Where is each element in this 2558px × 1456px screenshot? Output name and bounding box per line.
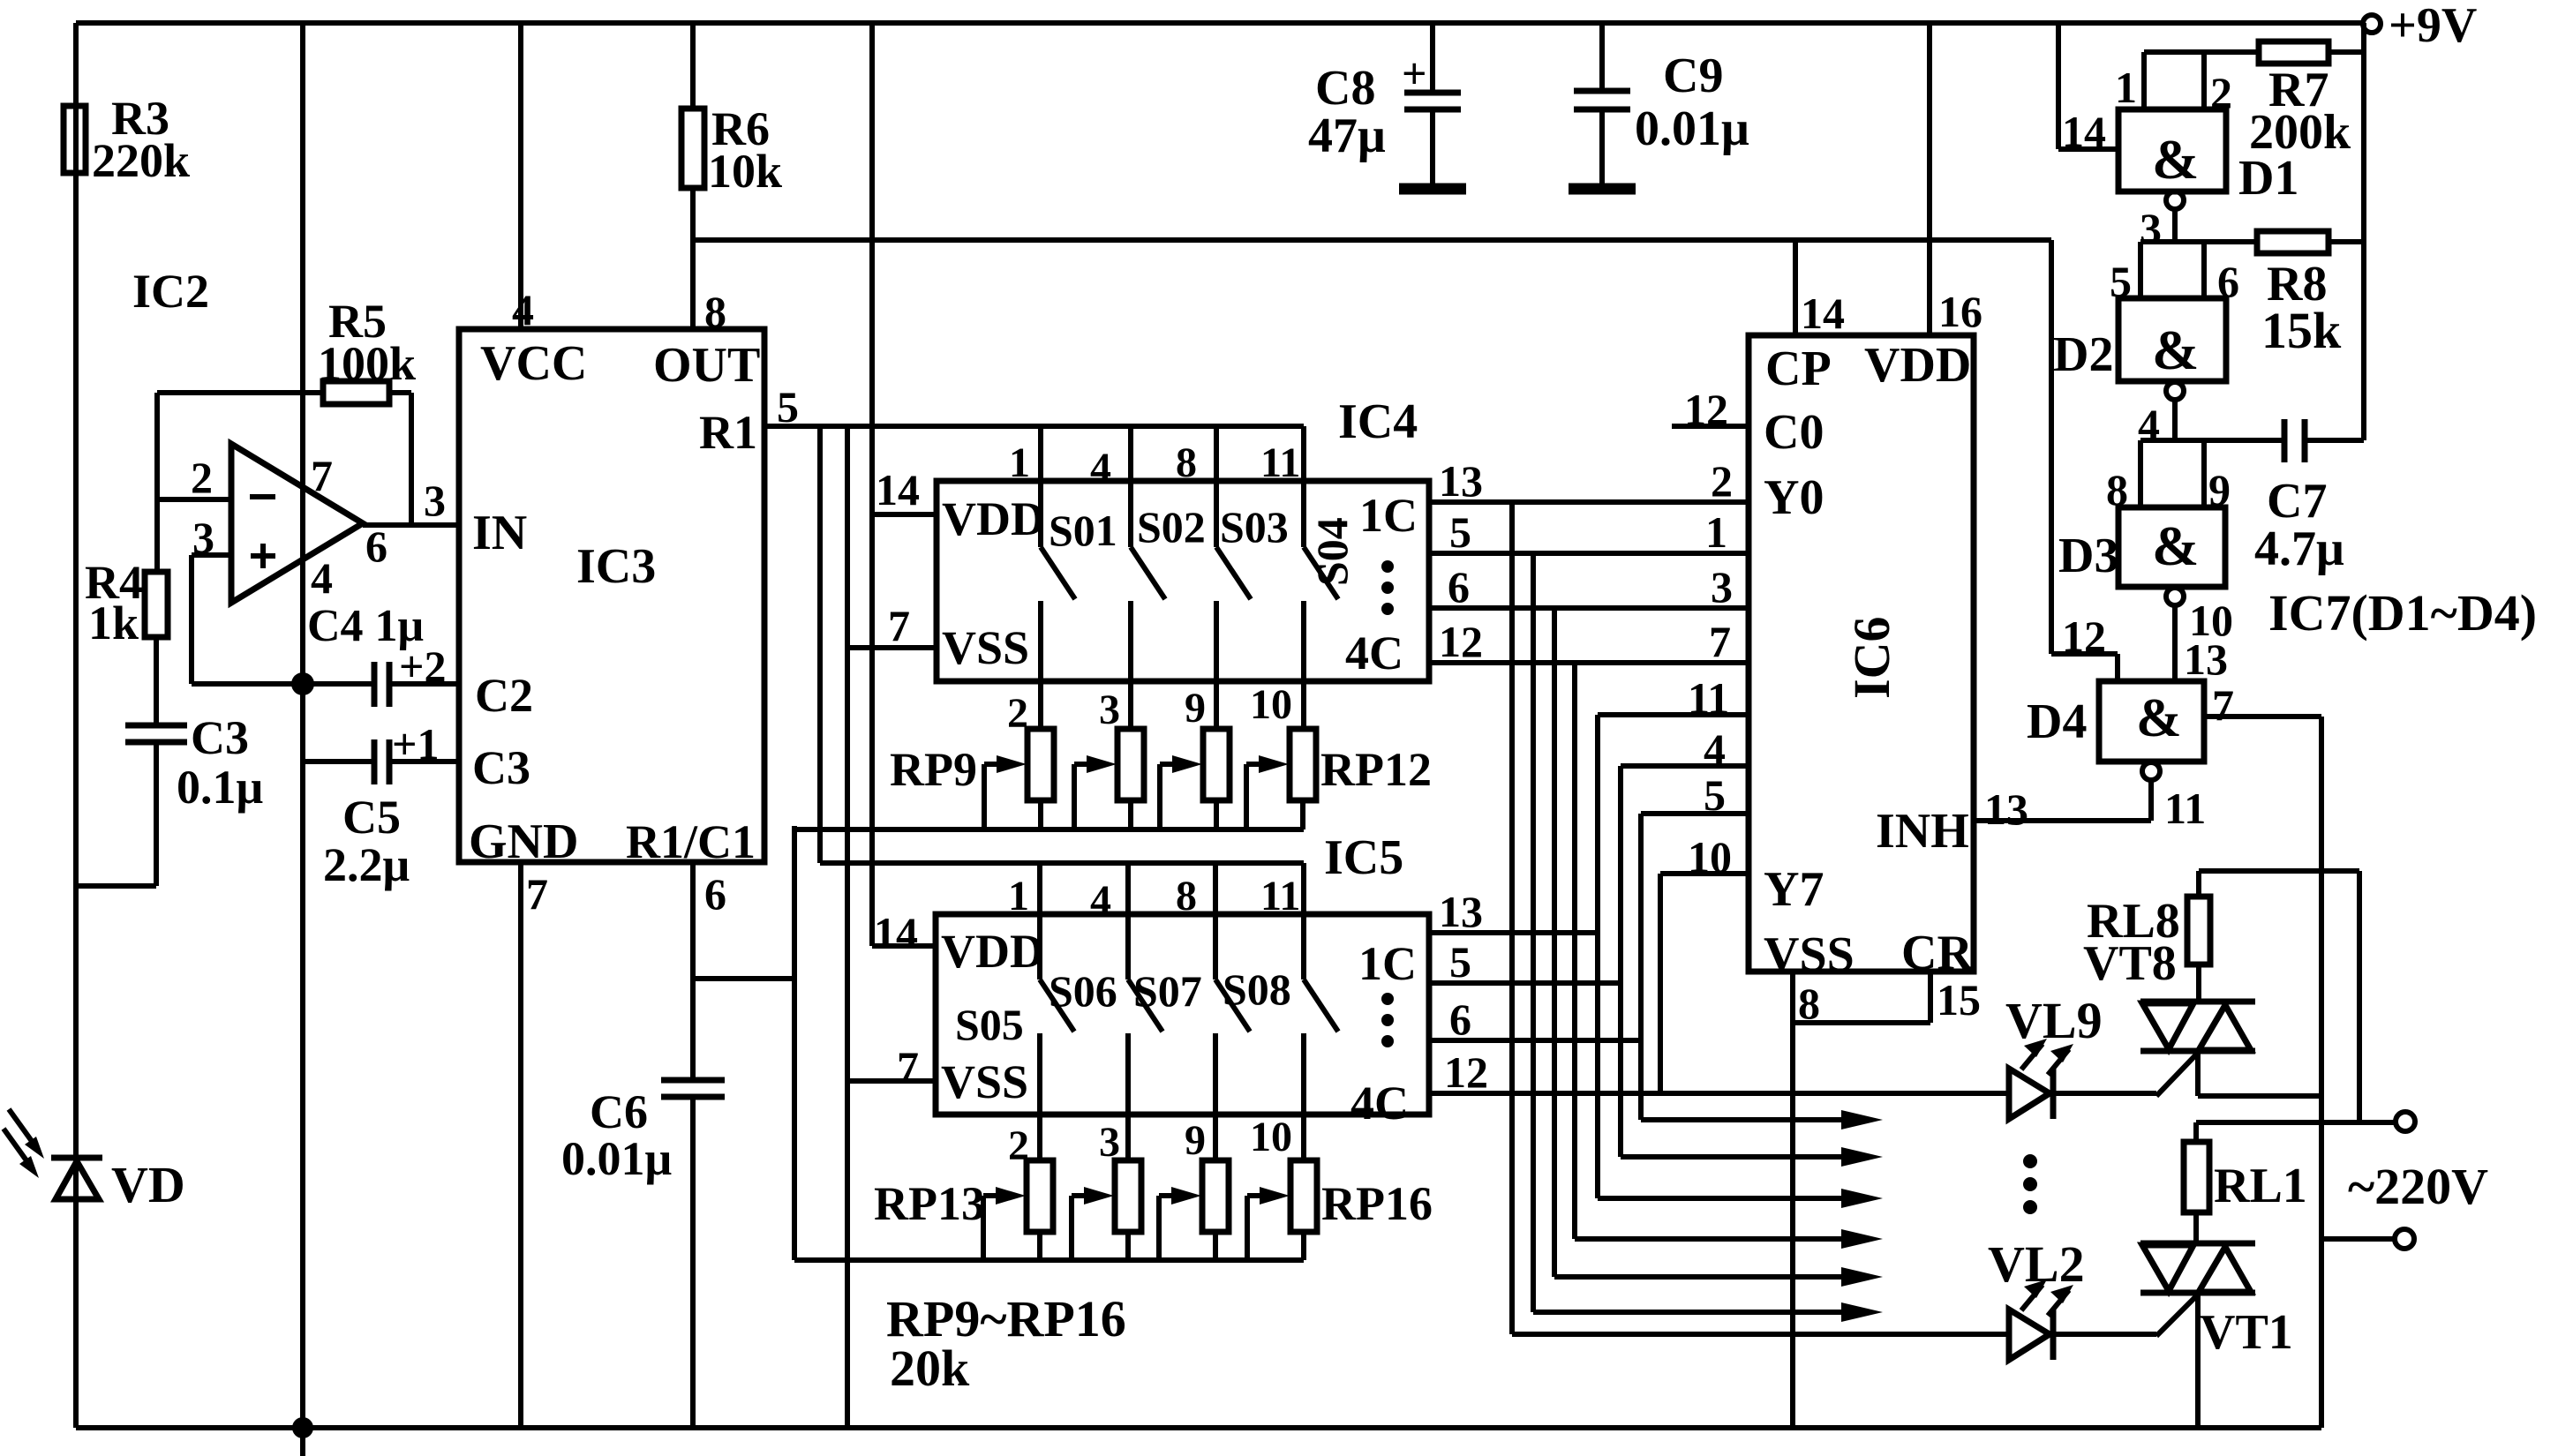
triac VT1 — [2140, 1212, 2293, 1428]
svg-text:8: 8 — [1176, 439, 1197, 486]
wire RL8 top rail — [2199, 871, 2359, 1122]
svg-text:~220V: ~220V — [2348, 1158, 2488, 1215]
svg-text:4: 4 — [311, 553, 333, 603]
wire top +9V rail — [76, 20, 2363, 26]
wire 220V lower terminal — [2321, 1229, 2414, 1249]
svg-text:0.01μ: 0.01μ — [561, 1132, 672, 1185]
svg-text:13: 13 — [1439, 887, 1483, 936]
svg-text:RL1: RL1 — [2214, 1159, 2307, 1213]
svg-text:1C: 1C — [1358, 937, 1417, 990]
svg-text:10: 10 — [1250, 681, 1292, 728]
svg-text:8: 8 — [1176, 873, 1197, 919]
switch S07 — [1133, 966, 1250, 1160]
wire OUT bus to IC6 CP and D4 — [693, 240, 2118, 681]
node D2 output bubble — [2138, 382, 2184, 449]
svg-text:S01: S01 — [1049, 506, 1117, 555]
wire IC3 GND pin7 — [521, 862, 548, 1428]
switch S04 — [1304, 517, 1357, 729]
capacitor C6 — [561, 862, 725, 1428]
svg-text:RP9: RP9 — [890, 743, 977, 796]
wire D1 inputs 1 2 — [2115, 52, 2259, 117]
svg-text:R1: R1 — [699, 406, 757, 459]
svg-text:1: 1 — [1705, 507, 1727, 557]
svg-text:6: 6 — [704, 869, 726, 919]
svg-text:3: 3 — [1711, 562, 1733, 612]
svg-text:VT1: VT1 — [2200, 1305, 2293, 1360]
arrow channel6 — [1621, 1147, 1883, 1167]
wire op-amp output to IC3 IN — [363, 522, 459, 528]
resistor R3 — [64, 92, 190, 187]
svg-text:IC3: IC3 — [576, 539, 656, 594]
svg-text:10k: 10k — [708, 145, 782, 198]
op-amp IC2 triangle — [231, 444, 363, 603]
svg-text:7: 7 — [2212, 680, 2234, 730]
svg-text:VDD: VDD — [1864, 338, 1971, 393]
svg-text:220k: 220k — [92, 134, 190, 187]
svg-text:3: 3 — [424, 476, 446, 525]
svg-text:5: 5 — [777, 382, 799, 432]
svg-text:IC6: IC6 — [1843, 617, 1900, 699]
wire IC6 pin5 stub — [1641, 770, 1749, 820]
wire IC5 out line 5 — [1429, 937, 1621, 987]
wire R4 to C3 — [154, 637, 159, 725]
wire C3 to left border — [76, 742, 156, 886]
capacitor C4 — [303, 601, 459, 707]
svg-text:VSS: VSS — [941, 1055, 1028, 1108]
wire IC6 VSS pin8 to CR pin15 hook — [1793, 972, 1981, 1028]
gate D4 — [2027, 681, 2204, 762]
switch S08 — [1223, 964, 1338, 1160]
triac VT8 — [2140, 964, 2321, 1096]
wire op-amp pin2 input — [157, 497, 231, 502]
svg-text:200k: 200k — [2249, 105, 2351, 160]
switch S03 — [1216, 502, 1289, 729]
resistor RL8 — [2083, 871, 2210, 991]
svg-text:8: 8 — [1798, 979, 1820, 1028]
svg-text:IC2: IC2 — [132, 265, 209, 318]
wire D1 out to D2 inputs — [2110, 242, 2257, 306]
wire RP9-12 bottom rail — [794, 827, 1304, 832]
wire IC6 VDD pin16 — [1930, 23, 1982, 336]
svg-text:OUT: OUT — [653, 338, 760, 393]
wire VL9 to VT8 gate — [2053, 1091, 2156, 1096]
wire center power bus through op-amp — [300, 23, 305, 1456]
svg-text:C3: C3 — [191, 711, 249, 764]
svg-text:D3: D3 — [2058, 529, 2118, 583]
svg-text:S07: S07 — [1133, 966, 1202, 1016]
svg-text:+9V: +9V — [2389, 0, 2477, 53]
svg-text:2: 2 — [2210, 68, 2232, 117]
svg-text:INH: INH — [1876, 804, 1969, 859]
svg-text:+1: +1 — [392, 719, 440, 769]
wire IC5 input drops — [1040, 863, 1304, 979]
wire VSS bus x960 — [847, 425, 937, 1428]
wire channel1 line to VL2 — [1512, 1332, 2009, 1337]
potentiometer RP12 — [1246, 729, 1432, 829]
wire channel2 drop — [1531, 553, 1536, 1312]
arrow channel2 — [1533, 1302, 1883, 1322]
wire channel4 drop — [1572, 663, 1577, 1239]
svg-text:2: 2 — [191, 453, 213, 502]
svg-text:0.01μ: 0.01μ — [1635, 101, 1749, 156]
svg-text:VCC: VCC — [480, 336, 587, 391]
svg-text:&: & — [2152, 319, 2199, 381]
wire channel3 drop — [1552, 608, 1557, 1277]
svg-text:1: 1 — [1009, 439, 1030, 486]
wire D4 pin7 output — [2204, 680, 2321, 730]
wire IC3 R1 pin5 line — [764, 382, 1304, 432]
capacitor C7 — [2254, 419, 2364, 576]
chip IC6 box — [1749, 335, 1974, 972]
svg-text:C2: C2 — [475, 669, 533, 722]
arrow channel5 — [1598, 1189, 1883, 1208]
svg-text:&: & — [2152, 514, 2199, 577]
svg-text:IC4: IC4 — [1338, 394, 1418, 449]
svg-text:Y0: Y0 — [1764, 470, 1824, 525]
wire VL2 to VT1 gate — [2053, 1332, 2156, 1337]
svg-text:4C: 4C — [1345, 627, 1403, 679]
svg-text:R1/C1: R1/C1 — [626, 815, 756, 868]
potentiometer RP11 — [1160, 729, 1230, 829]
label IC4 dots — [1381, 560, 1394, 615]
wire channel1 drop — [1509, 502, 1515, 1334]
svg-text:D4: D4 — [2027, 694, 2087, 749]
arrow channel7 — [1641, 1110, 1883, 1130]
svg-text:7: 7 — [1709, 617, 1731, 666]
svg-text:S08: S08 — [1223, 964, 1291, 1014]
wire 220V upper terminal — [2196, 1112, 2415, 1131]
wire IC4 input drops — [1041, 426, 1304, 547]
label IC5 dots — [1381, 993, 1394, 1047]
wire IC4 out line 6 to IC6 pin3 — [1429, 562, 1749, 612]
wire D2 out to D3 inputs — [2106, 440, 2282, 514]
capacitor C9 — [1569, 23, 1749, 189]
label dots between channels — [2023, 1154, 2037, 1214]
svg-text:C7: C7 — [2267, 474, 2327, 529]
svg-text:0.1μ: 0.1μ — [177, 761, 263, 814]
wire IC6 CP pin14 — [1795, 240, 1845, 338]
wire R5 right to output node — [389, 393, 411, 525]
svg-text:RP12: RP12 — [1320, 743, 1432, 796]
svg-text:7: 7 — [888, 601, 910, 650]
wire IC5 out line 6 — [1429, 994, 1641, 1044]
svg-text:CR: CR — [1901, 926, 1973, 980]
svg-text:C9: C9 — [1663, 49, 1723, 103]
svg-text:13: 13 — [1439, 456, 1483, 506]
wire bus x929 to IC5 input line — [820, 425, 1304, 863]
wire pin6 branch to pot bus — [693, 826, 794, 1260]
svg-text:1C: 1C — [1359, 489, 1418, 542]
wire IC4 out line 5 to IC6 pin1 — [1429, 507, 1749, 557]
node D4 output bubble — [2142, 762, 2206, 833]
svg-text:13: 13 — [2184, 634, 2228, 684]
wire left border — [73, 23, 79, 1428]
svg-text:12: 12 — [1439, 617, 1483, 666]
svg-text:10: 10 — [1688, 832, 1732, 882]
wire channel7 riser — [1638, 814, 1644, 1120]
svg-text:C3: C3 — [472, 741, 530, 794]
svg-text:VL9: VL9 — [2005, 992, 2103, 1049]
potentiometer RP13 — [874, 1160, 1053, 1260]
svg-text:16: 16 — [1938, 287, 1982, 336]
gate D1 — [2118, 109, 2298, 206]
svg-text:15k: 15k — [2261, 302, 2342, 359]
svg-text:12: 12 — [1684, 385, 1728, 434]
wire IC6 INH pin13 line — [1974, 784, 2151, 834]
svg-text:11: 11 — [1260, 439, 1300, 486]
svg-text:1k: 1k — [88, 597, 139, 649]
svg-text:S06: S06 — [1049, 966, 1117, 1016]
junction C4 node — [291, 672, 314, 695]
svg-text:14: 14 — [2062, 107, 2106, 156]
wire channel8 riser — [1658, 874, 1663, 1093]
wire channel5 riser — [1595, 715, 1600, 1198]
svg-text:VT8: VT8 — [2083, 936, 2177, 991]
svg-text:RP13: RP13 — [874, 1177, 985, 1230]
svg-text:20k: 20k — [890, 1340, 970, 1397]
svg-text:12: 12 — [1444, 1047, 1488, 1097]
node +9V terminal — [2363, 0, 2477, 53]
svg-text:+2: +2 — [399, 642, 447, 691]
wire VDD bus x988 — [872, 23, 937, 946]
LED VL9 — [2005, 992, 2103, 1119]
svg-text:IN: IN — [472, 506, 527, 560]
wire RP13-16 bottom rail — [794, 1257, 1304, 1263]
wire right output bus x2630 — [2319, 717, 2324, 1428]
svg-text:7: 7 — [526, 869, 548, 919]
svg-text:7: 7 — [311, 451, 333, 500]
wire right feedback bus — [2361, 23, 2366, 440]
potentiometer RP16 — [1247, 1160, 1433, 1260]
svg-text:8: 8 — [704, 287, 726, 336]
wire R5 left to feedback — [157, 390, 323, 395]
svg-text:11: 11 — [1260, 873, 1300, 919]
svg-text:13: 13 — [1984, 784, 2028, 834]
wire IC4 out line 12 to IC6 pin7 — [1429, 617, 1749, 666]
wire op-amp pin3 loop — [192, 555, 303, 684]
svg-text:D2: D2 — [2053, 327, 2113, 382]
svg-text:GND: GND — [469, 814, 578, 869]
svg-text:CP: CP — [1765, 341, 1832, 396]
svg-text:5: 5 — [1449, 937, 1471, 987]
switch S01 — [1041, 506, 1117, 729]
arrow channel3 — [1554, 1267, 1883, 1287]
svg-text:6: 6 — [1448, 562, 1470, 612]
svg-text:5: 5 — [1449, 507, 1471, 557]
wire R6 top to rail — [690, 23, 696, 109]
wire IC5 out line 12 / channel8 to VL9 — [1429, 1047, 2009, 1097]
svg-text:VD: VD — [111, 1156, 185, 1213]
svg-text:C0: C0 — [1764, 405, 1824, 460]
svg-text:4: 4 — [512, 285, 534, 334]
wire IC4 out line 13 to IC6 pin2 — [1429, 456, 1749, 506]
svg-text:4C: 4C — [1350, 1077, 1409, 1130]
gate D2 — [2053, 298, 2226, 382]
svg-text:2: 2 — [1711, 456, 1733, 506]
chip IC4 box — [937, 394, 1429, 681]
wire IC5 out line 13 — [1429, 887, 1598, 936]
svg-text:Y7: Y7 — [1764, 862, 1824, 917]
svg-text:7: 7 — [897, 1042, 919, 1092]
svg-text:14: 14 — [1801, 289, 1845, 338]
node D1 output bubble — [2140, 191, 2184, 253]
wire IC6 pin4 stub — [1621, 724, 1749, 774]
svg-text:RP16: RP16 — [1321, 1177, 1433, 1230]
wire IC6 C0 pin12 stub — [1672, 385, 1749, 434]
wire channel6 riser — [1618, 766, 1623, 1157]
svg-text:11: 11 — [1688, 673, 1729, 723]
svg-text:4: 4 — [1090, 445, 1111, 492]
chip IC5 box — [936, 830, 1429, 1115]
wire IC6 pin8 down to ground rail — [1790, 1023, 1795, 1428]
svg-text:2.2μ: 2.2μ — [323, 838, 410, 891]
svg-text:14: 14 — [874, 908, 918, 957]
svg-text:4: 4 — [1704, 724, 1726, 774]
svg-text:9: 9 — [1185, 1117, 1206, 1164]
switch S05 — [955, 979, 1074, 1160]
svg-text:S02: S02 — [1137, 502, 1206, 552]
svg-text:4.7μ: 4.7μ — [2254, 522, 2344, 576]
svg-text:+: + — [1402, 49, 1427, 98]
svg-text:15: 15 — [1937, 975, 1981, 1024]
svg-text:14: 14 — [876, 465, 920, 514]
wire feedback down to pin2 — [154, 393, 160, 574]
svg-text:IC7(D1~D4): IC7(D1~D4) — [2268, 584, 2537, 642]
svg-text:100k: 100k — [318, 337, 416, 390]
svg-text:VL2: VL2 — [1988, 1235, 2085, 1293]
svg-text:S03: S03 — [1220, 502, 1289, 552]
wire D1 pin14 feed — [2058, 23, 2118, 156]
junction center bus bottom — [292, 1417, 313, 1438]
switch S06 — [1049, 966, 1162, 1160]
resistor R6 — [681, 102, 782, 198]
resistor R8 — [2257, 231, 2364, 359]
svg-text:C6: C6 — [590, 1085, 648, 1138]
chip IC3 box — [459, 329, 764, 862]
gate D3 — [2058, 507, 2225, 587]
switch S02 — [1131, 502, 1206, 729]
potentiometer RP15 — [1159, 1160, 1229, 1260]
svg-text:6: 6 — [365, 522, 387, 571]
wire R6 bottom to IC3 OUT pin8 — [693, 188, 726, 336]
resistor R7 — [2249, 41, 2364, 160]
wire bottom ground rail — [76, 1425, 2321, 1430]
svg-text:VDD: VDD — [942, 492, 1045, 545]
wire IC6 pin10 stub — [1660, 832, 1749, 882]
svg-text:IC5: IC5 — [1324, 830, 1403, 885]
potentiometer RP14 — [1072, 1160, 1141, 1260]
svg-text:11: 11 — [2164, 784, 2206, 833]
svg-text:S05: S05 — [955, 1000, 1024, 1049]
svg-text:VDD: VDD — [941, 925, 1044, 978]
capacitor C8 — [1308, 23, 1466, 189]
photodiode VD — [4, 1109, 185, 1213]
arrow channel4 — [1575, 1229, 1883, 1249]
svg-text:5: 5 — [1704, 770, 1726, 820]
LED VL2 — [1988, 1235, 2085, 1360]
svg-text:1: 1 — [2115, 63, 2137, 112]
potentiometer RP9 — [890, 729, 1054, 829]
svg-text:&: & — [2136, 688, 2182, 748]
resistor R4 — [85, 556, 168, 649]
resistor RL1 — [2184, 1122, 2307, 1213]
svg-text:4: 4 — [1090, 877, 1111, 924]
svg-text:10: 10 — [1250, 1114, 1292, 1160]
svg-text:1: 1 — [1008, 873, 1029, 919]
svg-text:&: & — [2152, 128, 2199, 191]
svg-text:6: 6 — [1449, 994, 1471, 1044]
capacitor C3 — [125, 711, 263, 814]
resistor R5 — [318, 295, 416, 404]
node D3 output bubble — [2166, 588, 2233, 684]
wire IC6 pin11 stub — [1598, 673, 1749, 723]
svg-text:C5: C5 — [342, 791, 401, 844]
svg-text:VSS: VSS — [1764, 927, 1855, 982]
svg-text:C8: C8 — [1315, 61, 1375, 116]
svg-text:9: 9 — [1185, 685, 1206, 732]
svg-text:47μ: 47μ — [1308, 109, 1386, 163]
svg-text:12: 12 — [2062, 612, 2106, 661]
svg-text:S04: S04 — [1307, 517, 1357, 586]
capacitor C5 — [303, 719, 459, 891]
wire IC3 VCC pin4 — [512, 23, 534, 334]
svg-text:VSS: VSS — [942, 621, 1029, 674]
potentiometer RP10 — [1074, 729, 1144, 829]
